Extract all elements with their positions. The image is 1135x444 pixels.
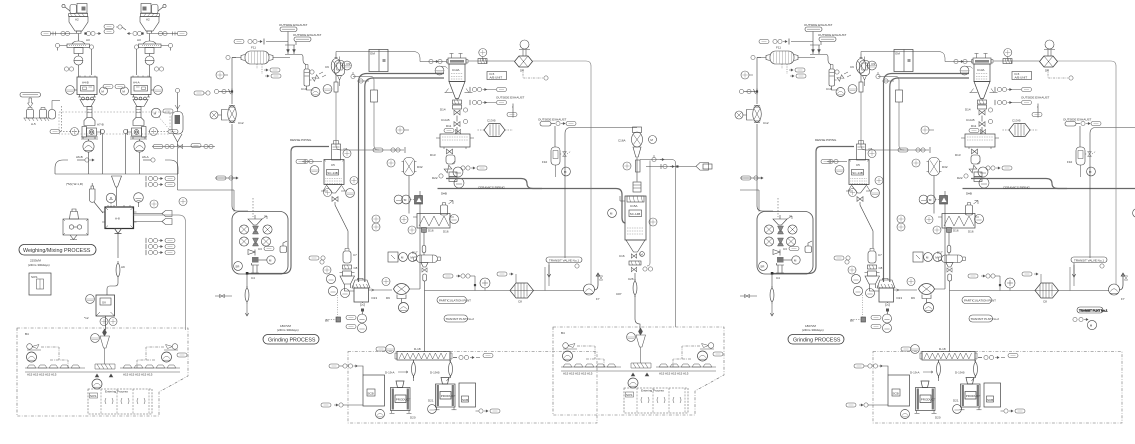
svg-text:D16: D16 — [443, 230, 449, 234]
mixer right outlet capsules — [134, 213, 163, 215]
packer D21 — [435, 378, 457, 410]
D6 blower — [515, 56, 533, 67]
left bag slitter — [27, 344, 41, 350]
svg-text:D-19-B: D-19-B — [430, 371, 440, 375]
svg-text:D-18: D-18 — [414, 347, 421, 351]
D17 aux square + motors — [388, 252, 398, 262]
C8 funnel + elbow — [340, 276, 355, 291]
row under capsule — [1073, 317, 1077, 321]
C5 weigh vessel — [324, 160, 344, 185]
center screw feeder — [95, 364, 115, 369]
svg-text:D14: D14 — [440, 108, 446, 112]
svg-text:D13: D13 — [430, 153, 436, 157]
svg-text:D32: D32 — [417, 165, 423, 169]
svg-text:DENSE PIPING: DENSE PIPING — [290, 138, 312, 142]
D-5 unit label box — [487, 72, 507, 80]
mixer discharge line — [117, 234, 119, 259]
transit plant capsule line2 — [1077, 307, 1103, 313]
F6 transfer pump — [584, 284, 595, 295]
A10 drop bead line — [106, 293, 108, 295]
svg-text:SC-14B: SC-14B — [630, 212, 641, 216]
C9 gauges — [343, 61, 352, 70]
C4 spool — [251, 263, 259, 273]
mill left gauge — [341, 289, 350, 298]
svg-text:C#7: C#7 — [616, 292, 622, 296]
M circle — [1087, 320, 1096, 329]
weighing train 2 (mirror) — [124, 4, 188, 175]
row into C5 left — [215, 177, 237, 179]
svg-text:C13-B: C13-B — [487, 119, 496, 123]
bagging area dashed box — [348, 352, 597, 424]
svg-text:A4-A: A4-A — [133, 81, 140, 85]
svg-text:C4: C4 — [251, 276, 255, 280]
F-2 drop to transfer — [178, 149, 216, 190]
svg-text:TRANSIT PLNT No.1: TRANSIT PLNT No.1 — [1079, 309, 1108, 313]
inlet diamond — [103, 329, 107, 336]
vent circle — [62, 4, 65, 7]
weigh hopper A4-B box — [77, 77, 97, 95]
svg-text:C10: C10 — [301, 87, 307, 91]
svg-text:GM: GM — [370, 52, 375, 56]
svg-text:A9: A9 — [121, 265, 125, 269]
feed line circles — [61, 31, 65, 35]
dense pipe run B from C6 down to C4 loop — [248, 147, 330, 274]
dense conveying pipe run A — [359, 74, 445, 283]
Entering Process sub-box — [88, 389, 152, 414]
svg-text:C26: C26 — [628, 277, 634, 281]
right row out — [476, 410, 479, 412]
dashdot route left — [41, 347, 68, 368]
C8 left instruments — [326, 274, 335, 283]
C5 discharge valve — [332, 197, 338, 202]
svg-text:OUTSIDE EXHAUST: OUTSIDE EXHAUST — [538, 118, 567, 122]
hollow down arrow — [28, 98, 33, 107]
svg-text:OUTSIDE EXHAUST: OUTSIDE EXHAUST — [293, 33, 322, 37]
manifold top row — [266, 42, 295, 46]
D6 exhaust duct — [533, 61, 592, 284]
svg-text:Weighing/Mixing PROCESS: Weighing/Mixing PROCESS — [23, 248, 91, 254]
F-2 dust collector — [172, 112, 183, 135]
left rows into box — [329, 364, 339, 368]
svg-text:B6: B6 — [325, 319, 329, 323]
A5 table — [24, 118, 50, 121]
svg-text:D11: D11 — [446, 124, 452, 128]
hopper A2 body — [69, 17, 88, 32]
legend box — [29, 273, 51, 295]
left gauge — [66, 86, 75, 95]
drop lines to collector — [88, 152, 90, 174]
C5 low circles — [324, 189, 332, 197]
riser tee — [353, 77, 374, 91]
C10 slide valve — [312, 75, 319, 82]
blending box line 2 — [553, 327, 724, 415]
return line right — [647, 161, 650, 267]
F-2 outlet row — [152, 146, 215, 148]
C6 surge vessel — [332, 141, 348, 161]
packer D20 — [390, 381, 412, 413]
A10 SV unit — [96, 295, 115, 316]
conveyor floor line — [25, 368, 180, 372]
D9 outlet funnel + motor — [397, 295, 406, 303]
loop capsule + bottle — [264, 247, 274, 251]
right motor — [162, 352, 172, 362]
svg-text:D16: D16 — [428, 229, 434, 233]
center shared feed cluster — [104, 25, 114, 29]
C15A valve stack — [631, 254, 636, 258]
cone skirt — [445, 89, 473, 93]
inlet funnel — [100, 336, 110, 364]
svg-text:C3: C3 — [258, 247, 262, 251]
svg-text:SV: SV — [102, 301, 106, 305]
F-1 bottle — [90, 183, 96, 202]
A5 bag station capsule — [20, 93, 41, 98]
line into grinding riser — [134, 215, 186, 330]
Weighing/Mixing PROCESS oval — [19, 245, 96, 256]
screw feeder A7-B body — [82, 127, 87, 138]
feed line capsule — [41, 32, 51, 36]
right side instrument rows y178/184 — [146, 176, 163, 181]
svg-text:A-5: A-5 — [31, 122, 36, 126]
C5 cone — [326, 185, 342, 194]
svg-text:SCB: SCB — [368, 392, 374, 396]
C3 diverter flag — [248, 250, 255, 256]
C13A top stubs — [450, 54, 463, 59]
line gauge — [480, 278, 490, 288]
svg-text:SCB: SCB — [462, 398, 468, 402]
svg-text:A6-A: A6-A — [142, 155, 149, 159]
mill D13 top hat — [352, 279, 370, 289]
pressure gauge mid-left — [216, 71, 224, 79]
svg-text:A7-B: A7-B — [97, 123, 104, 127]
top symbols row left — [77, 159, 85, 161]
svg-text:A-8: A-8 — [115, 217, 120, 221]
svg-text:D20: D20 — [410, 416, 416, 420]
svg-text:C7: C7 — [353, 253, 357, 257]
D14 discharge stack — [456, 99, 458, 100]
mill D13 body — [354, 288, 369, 302]
filter inlet line — [232, 57, 290, 59]
dotted drain — [337, 295, 339, 317]
stack below D12 — [447, 149, 453, 154]
mixer A8 body — [105, 207, 134, 229]
hopper A2 outlet valve — [76, 31, 83, 34]
sifter A3 dome — [72, 41, 85, 44]
svg-text:TRANSIT VALVE No.1: TRANSIT VALVE No.1 — [549, 259, 579, 263]
C2 valve circles row2 — [239, 237, 248, 246]
C13A hopper body — [449, 64, 465, 82]
svg-text:F11: F11 — [251, 46, 256, 50]
D18 screw conveyor — [395, 347, 452, 360]
rotary feeder motor A6-B — [83, 141, 94, 152]
A-11 feeder machine — [70, 209, 79, 219]
conveyor units — [27, 365, 176, 377]
feeder base — [81, 137, 98, 139]
svg-text:C8: C8 — [354, 266, 358, 270]
blend dashed boundary — [17, 328, 188, 416]
left bag store box — [363, 375, 385, 406]
bypass blower circle — [210, 111, 218, 119]
transfer line to silo — [425, 290, 585, 292]
line from weighing into loop — [215, 190, 234, 212]
D4 feeder box — [336, 317, 341, 322]
C12 bypass loop — [222, 110, 228, 121]
svg-text:C8: C8 — [518, 300, 522, 304]
svg-text:SOS: SOS — [31, 275, 37, 279]
svg-text:Entering Process: Entering Process — [105, 390, 128, 394]
C12 riser line — [232, 58, 248, 212]
top symbols row right — [143, 159, 151, 161]
c4 right — [179, 198, 187, 206]
A1 receiver pot — [49, 110, 56, 120]
D9 blower boat — [394, 284, 410, 295]
C9 drop spool — [334, 82, 338, 92]
svg-text:PRODUCT: PRODUCT — [396, 397, 411, 401]
D16 screw conveyor — [413, 214, 454, 234]
D16 discharge box — [422, 228, 427, 233]
D2 instrument pair — [372, 215, 380, 223]
feeder flare — [84, 118, 95, 126]
pre-weigh circles — [64, 67, 68, 71]
svg-text:SC-14B: SC-14B — [327, 171, 338, 175]
svg-text:A4-B: A4-B — [82, 81, 89, 85]
svg-text:F10: F10 — [542, 160, 548, 164]
funnel feed dashes — [252, 198, 254, 217]
filter bypass cap — [497, 272, 507, 276]
svg-text:A2: A2 — [146, 18, 150, 22]
magnet detector box — [415, 196, 423, 205]
row right of D17 — [443, 274, 453, 278]
N2 purge box — [77, 4, 87, 14]
svg-text:*12: *12 — [84, 316, 89, 320]
svg-text:D22: D22 — [432, 176, 438, 180]
Grinding PROCESS oval — [263, 335, 319, 345]
left motor — [27, 352, 37, 362]
center M circles between weigh hoppers — [100, 87, 108, 95]
discharge motor — [92, 379, 102, 389]
svg-text:B4: B4 — [25, 332, 29, 336]
silencer — [478, 59, 487, 64]
mill discharge valve — [362, 302, 364, 303]
svg-text:C13A: C13A — [452, 68, 460, 72]
feeder neck — [87, 107, 92, 118]
102 pill — [177, 353, 187, 357]
mill outlet arrow — [369, 289, 375, 291]
svg-text:A2: A2 — [75, 18, 79, 22]
dashed control line — [60, 131, 80, 133]
C13A left gauge — [435, 66, 444, 75]
inline filter box — [371, 90, 378, 102]
C16A vent to exhaust — [565, 128, 637, 259]
C13A hopper top flange — [448, 58, 466, 64]
svg-text:D6: D6 — [520, 69, 524, 73]
svg-text:SOS: SOS — [90, 394, 96, 398]
svg-text:F7: F7 — [596, 297, 600, 301]
C3 feeder box — [252, 257, 259, 263]
svg-text:D#B: D#B — [441, 192, 447, 196]
svg-text:PARTICULATION PLNT: PARTICULATION PLNT — [439, 299, 471, 303]
svg-text:(24hrs 300days): (24hrs 300days) — [28, 263, 50, 267]
feed row into loop left — [215, 295, 232, 297]
feed line — [50, 33, 76, 35]
transit valve capsule — [546, 257, 582, 263]
F-2 left gauge — [151, 108, 161, 118]
svg-text:D-19-A: D-19-A — [385, 371, 395, 375]
C1 inlet funnel — [248, 215, 262, 225]
SR gauge — [234, 262, 243, 271]
F9 bottle — [335, 57, 351, 87]
C16A funnel — [633, 147, 641, 157]
top rows right — [640, 160, 676, 328]
mixer bottom valve — [115, 229, 122, 234]
control panel — [369, 50, 388, 72]
hopper right rows — [470, 87, 487, 92]
collector header line — [55, 160, 178, 174]
PARTICULATION PLANT oval — [437, 297, 467, 304]
grinding line 2 (duplicate, +525px) — [735, 23, 1135, 423]
D18 right row — [453, 357, 457, 359]
svg-text:(24hrs 300days): (24hrs 300days) — [277, 328, 299, 332]
right gauge on hopper — [86, 31, 90, 35]
PI circle far right — [150, 200, 158, 208]
D9 return air line — [410, 191, 421, 289]
feed line ticks — [53, 32, 56, 36]
hopper A2 top band — [69, 14, 88, 17]
sifter side circles — [55, 43, 59, 47]
svg-text:C15A: C15A — [630, 204, 638, 208]
row y91.5 — [214, 89, 218, 93]
svg-text:A15 A15 A15 A15 A15: A15 A15 A15 A15 A15 — [27, 373, 57, 377]
weighing train 1 — [41, 4, 105, 175]
C7 bottle column — [343, 249, 357, 264]
fan circle — [74, 56, 83, 65]
D22 capsules — [346, 316, 356, 320]
bag loader — [70, 5, 77, 14]
sifter A3 body — [74, 48, 83, 54]
svg-text:OUTSIDE EXHAUST: OUTSIDE EXHAUST — [279, 23, 308, 27]
svg-text:D21: D21 — [428, 399, 434, 403]
C5 left gauge — [310, 166, 319, 175]
A9 bead — [116, 261, 120, 279]
svg-text:A/B UNIT: A/B UNIT — [490, 76, 503, 80]
packer drop A — [413, 360, 415, 362]
ceramics piping run C — [446, 179, 542, 189]
inline screen filter — [510, 283, 534, 304]
svg-text:C9: C9 — [325, 65, 329, 69]
svg-text:C12: C12 — [238, 121, 244, 125]
svg-text:D9: D9 — [386, 296, 390, 300]
svg-text:A6-B: A6-B — [76, 155, 83, 159]
right empty-bag box — [459, 383, 476, 407]
gauge left of C13B — [396, 126, 404, 134]
exhaust manifold — [285, 45, 299, 55]
svg-text:CERAMICS PIPING: CERAMICS PIPING — [478, 186, 506, 190]
svg-text:OUTSIDE EXHAUST: OUTSIDE EXHAUST — [496, 96, 525, 100]
svg-text:A3: A3 — [137, 38, 141, 42]
loop discharge drop — [246, 275, 248, 289]
D16 top cylinder — [441, 205, 448, 215]
inline rect on drop — [636, 160, 641, 172]
packer drop B — [449, 360, 451, 362]
C1 valve circles row1 — [239, 225, 248, 234]
discharge funnel — [80, 100, 95, 107]
C12 inline vessel — [228, 105, 237, 122]
svg-text:TRANSIT PLNT No.2: TRANSIT PLNT No.2 — [446, 317, 475, 321]
svg-text:2255t/M: 2255t/M — [30, 259, 41, 263]
svg-text:C14-B: C14-B — [441, 118, 450, 122]
C10 riser vessel — [301, 65, 314, 92]
svg-text:C16A: C16A — [618, 139, 626, 143]
svg-text:Grinding PROCESS: Grinding PROCESS — [268, 338, 316, 344]
lower right rows — [146, 238, 163, 243]
D12 sifter machine — [440, 134, 470, 147]
PS circle pair — [358, 314, 367, 323]
funnel gauge — [91, 334, 100, 343]
silo riser pair — [545, 265, 549, 291]
svg-text:A3: A3 — [86, 38, 90, 42]
big PI circles right — [453, 167, 463, 177]
TRANSIT PLANT oval — [444, 315, 468, 322]
ref capsules right — [194, 91, 204, 95]
svg-text:D13: D13 — [372, 296, 378, 300]
svg-text:C16: C16 — [619, 254, 625, 258]
feet triangles — [95, 374, 113, 377]
A4 feet — [78, 95, 96, 98]
A5 drums — [27, 110, 34, 119]
right bag slitter — [164, 344, 178, 350]
row into C5 upper left — [302, 161, 322, 163]
NK circle — [450, 215, 459, 224]
feeder dashed enclosure — [59, 112, 170, 134]
collector funnel — [112, 176, 122, 206]
C1-C4 recycle loop boundary — [232, 212, 288, 275]
svg-text:C5: C5 — [331, 163, 335, 167]
bend to A10 — [107, 283, 118, 293]
F11 inline filter — [241, 46, 281, 79]
TI circle right — [134, 193, 144, 203]
svg-text:(*M)( W-1,R): (*M)( W-1,R) — [66, 182, 83, 186]
C15A vessel — [620, 196, 646, 252]
svg-text:A15 A15 A15 A15 A15: A15 A15 A15 A15 A15 — [123, 373, 153, 377]
dashdot route right — [137, 347, 164, 368]
left drop line — [61, 106, 63, 131]
feed spool — [636, 158, 638, 182]
D32 inline vessel — [402, 158, 417, 176]
C13A cone — [449, 82, 465, 99]
C16A cyclone — [633, 127, 642, 133]
C13-B bag filter hex — [477, 119, 513, 137]
PI gauge over mixer — [106, 193, 116, 203]
inlet row top — [420, 61, 447, 63]
drop line to sifter — [77, 34, 79, 42]
sifter A3 plate — [67, 44, 90, 48]
vent line to D6 — [468, 60, 514, 62]
D6 weather cap — [520, 40, 529, 49]
